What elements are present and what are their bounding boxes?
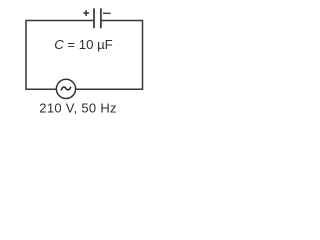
capacitor C1 left plate	[93, 8, 95, 28]
svg-text:210 V, 50 Hz: 210 V, 50 Hz	[39, 100, 117, 115]
capacitor C1 right plate	[100, 8, 102, 28]
wire from source to bottom-right, right side, top-right segment	[76, 21, 143, 90]
AC source sine (tilde) symbol	[61, 87, 71, 91]
svg-text:C = 10 µF: C = 10 µF	[54, 37, 113, 52]
wire top-left segment, left side, bottom-left to source	[26, 21, 93, 90]
AC source V1 circle	[56, 79, 75, 98]
polarity minus label	[103, 12, 111, 14]
polarity plus label	[83, 10, 89, 16]
